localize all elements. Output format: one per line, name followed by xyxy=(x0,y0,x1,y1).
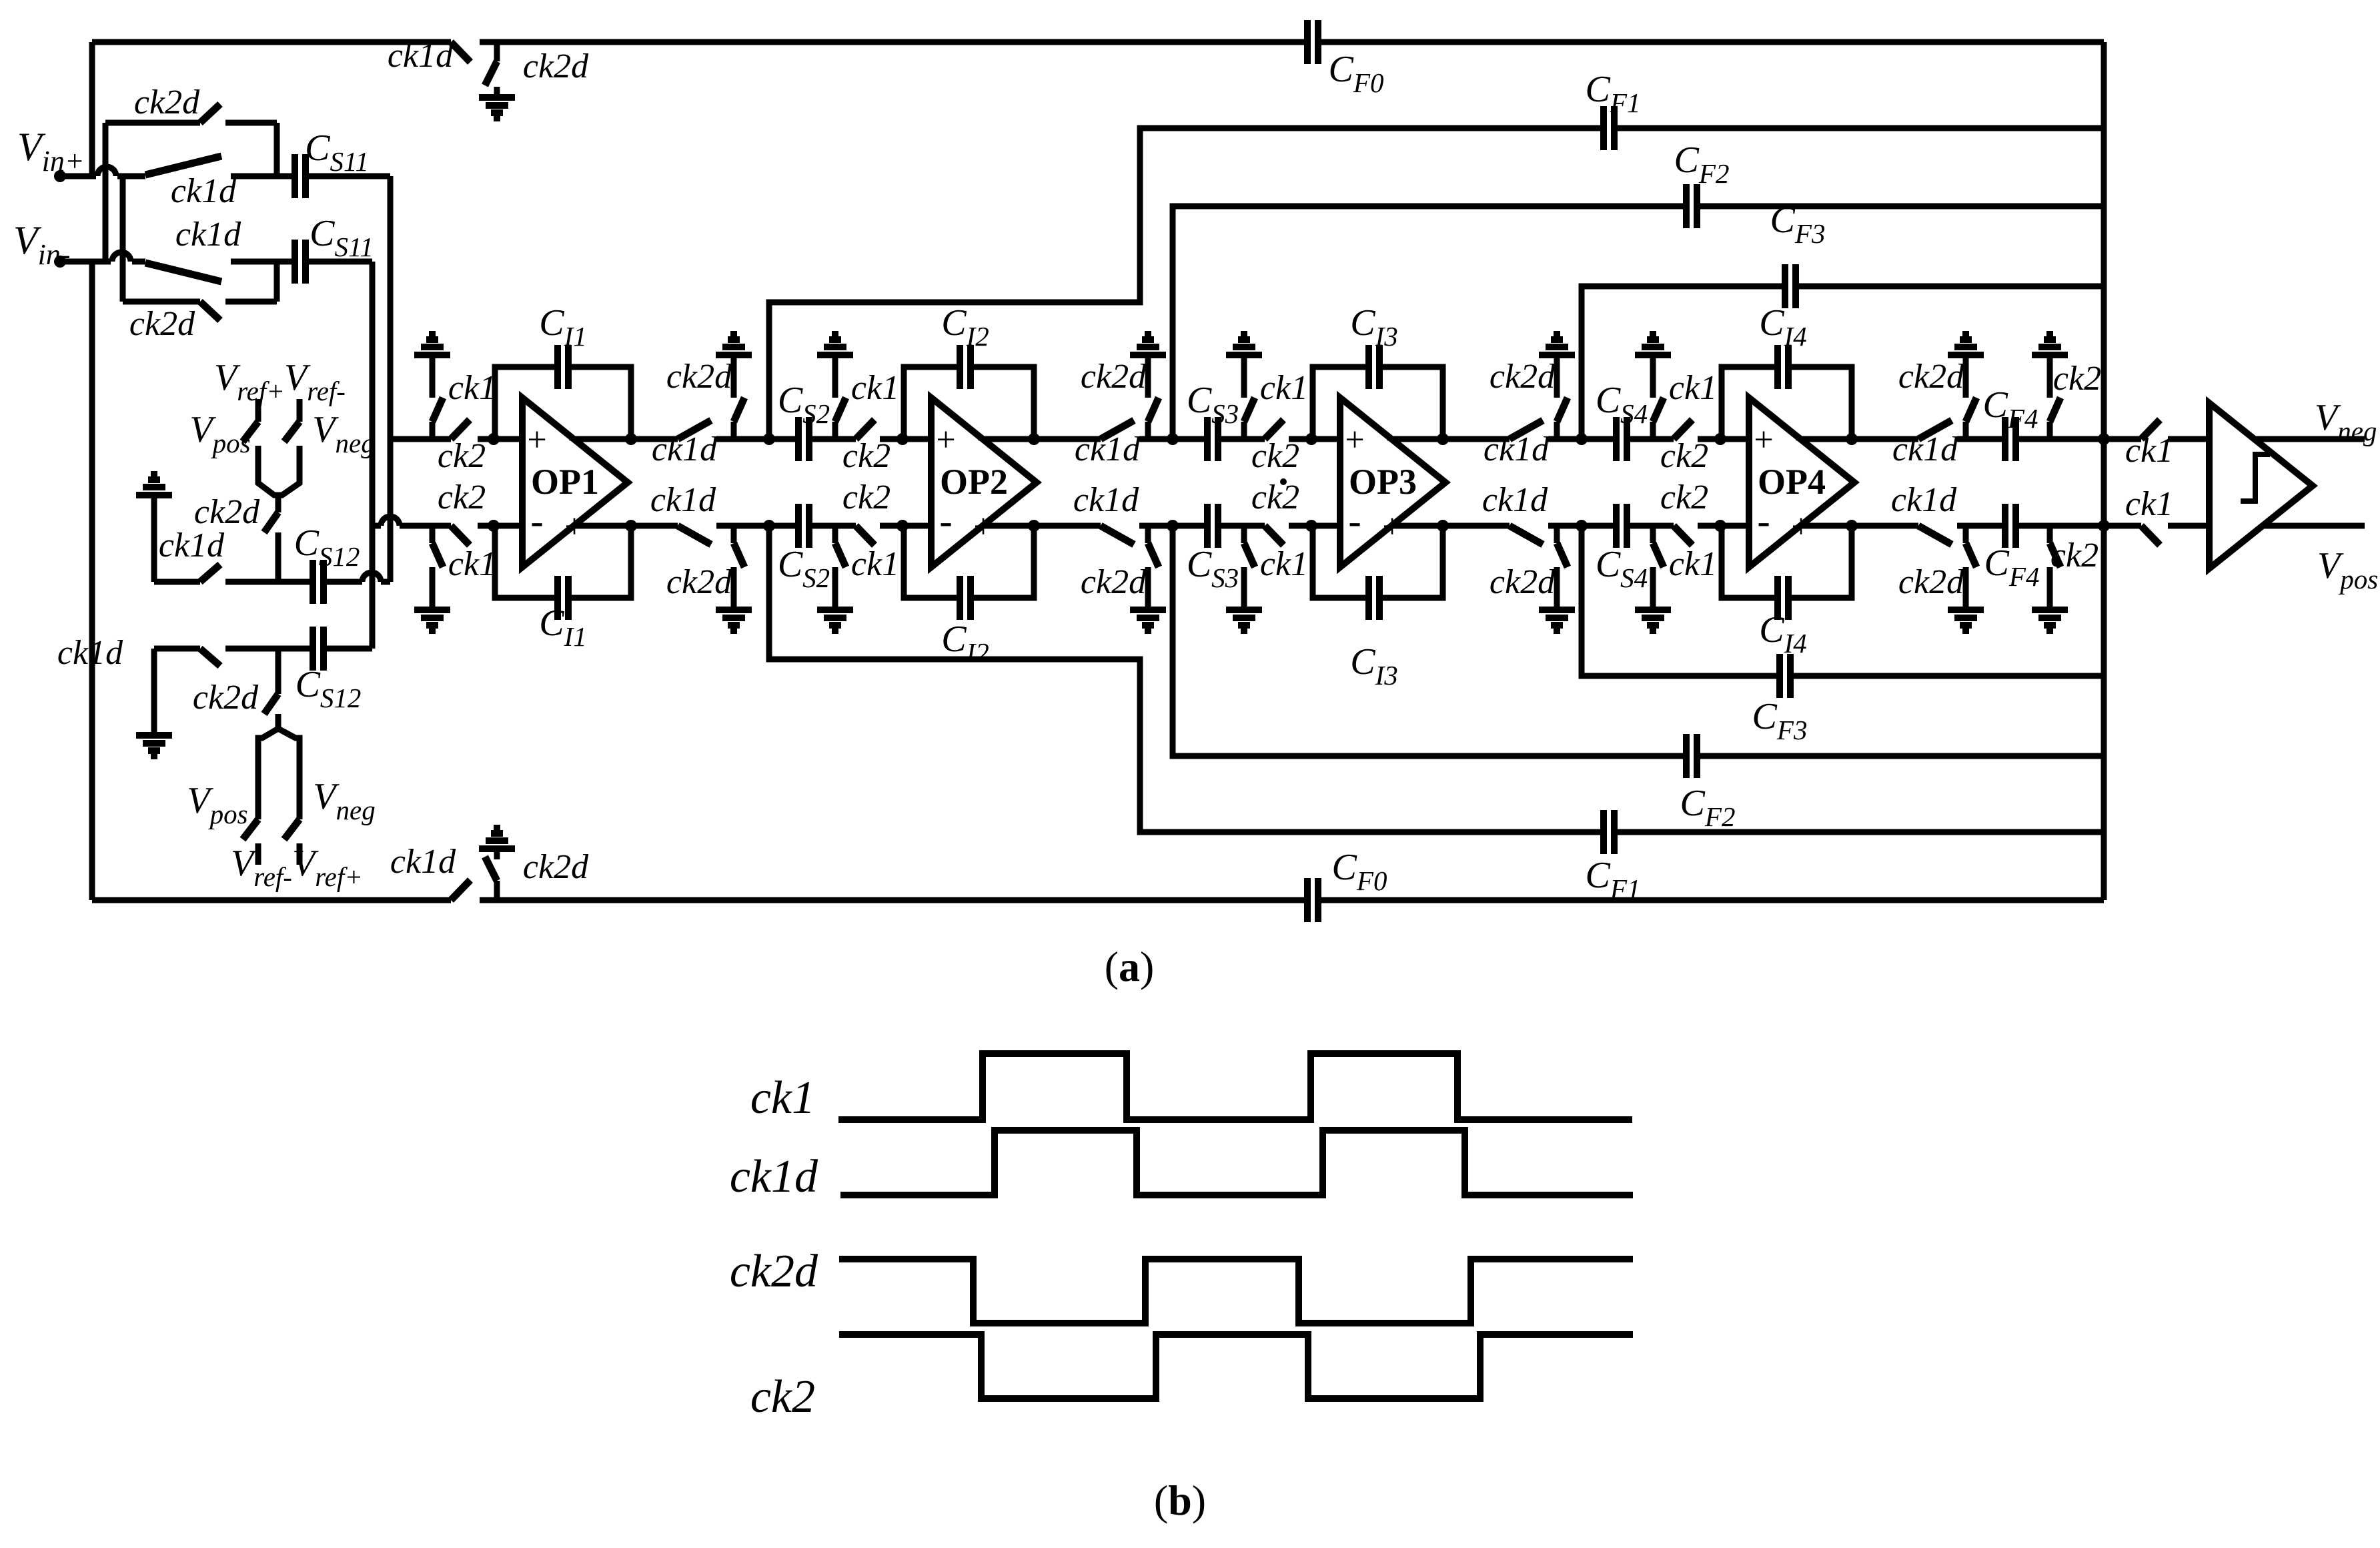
capacitor CF2 (top) xyxy=(1686,184,1697,228)
switch ck1 to ground (OP4 bottom input) xyxy=(1650,526,1656,543)
capacitor CF4 (bottom) xyxy=(2005,504,2016,548)
switch ck2d to ground (after OP4 bottom) xyxy=(1963,526,1969,543)
switch ck1d (Vin- row) xyxy=(145,263,221,282)
capacitor CF0 (bottom) xyxy=(1307,878,1318,922)
switch ck2d (upper input) xyxy=(200,104,220,123)
wire bottom signal rail xyxy=(372,523,381,529)
switch ck1d (OP3 top output) xyxy=(1510,420,1543,439)
waveform ck2 xyxy=(839,1334,1633,1399)
wire CS12 lower row xyxy=(151,649,157,711)
wire crossing hop on Vin+ row over ck2d column xyxy=(97,167,116,176)
switch ck1d (bottom CF0 wire) xyxy=(451,880,470,900)
switch ck2d to ground (after OP3 top) xyxy=(1554,422,1560,439)
wire plus-net vertical (CS11 upper to rail and CS12 upper) xyxy=(388,176,394,582)
capacitor CS4 (top) xyxy=(1616,417,1627,461)
svg-text:ck2d: ck2d xyxy=(666,358,732,396)
ground top CF0 ck2d ground xyxy=(479,87,515,119)
switch ck1 to ground (OP2 top input) xyxy=(832,422,838,439)
wire crossing hop on bottom rail at plus-net vertical xyxy=(381,516,400,526)
switch ck2d to ground (top CF0 wire) xyxy=(494,42,500,61)
svg-text:ck2d: ck2d xyxy=(194,493,260,531)
wire CF3 top feedback xyxy=(1576,433,1588,445)
switch ck2 (OP3 top input) xyxy=(1265,420,1283,439)
ground OP2 bottom ck1 ground xyxy=(817,586,853,631)
switch ck1 to ground (OP2 bottom input) xyxy=(832,526,838,543)
capacitor CF4 (top) xyxy=(2005,417,2016,461)
ground after OP2 bottom ck2d ground xyxy=(1130,586,1166,631)
op-amp OP4 xyxy=(1749,398,1854,567)
svg-text:ck1d: ck1d xyxy=(388,37,454,75)
node summing bus / bottom rail xyxy=(2098,520,2110,532)
ground CF4 bottom ck2 ground xyxy=(2032,586,2068,631)
switch ck2 to ground (CF4 top) xyxy=(2047,422,2053,439)
capacitor CS2 (top) xyxy=(798,417,809,461)
wire Vref switch merge (upper block) xyxy=(258,446,278,495)
switch ck1 to ground (OP3 top input) xyxy=(1241,422,1247,439)
switch Vneg (lower block) xyxy=(284,819,300,839)
switch ck1 to ground (OP1 top input) xyxy=(430,422,436,439)
wire CF1 top feedback xyxy=(763,433,775,445)
capacitor CI3 (bottom) loop xyxy=(1313,526,1443,598)
capacitor CF0 (top) xyxy=(1307,20,1318,64)
capacitor CF1 (top) xyxy=(1604,106,1614,150)
wire bottom CF0 line (right) xyxy=(1318,897,2104,903)
switch ck2 (OP1 top input) xyxy=(451,420,470,439)
svg-text:ck2d: ck2d xyxy=(193,679,259,717)
waveform ck1d xyxy=(840,1130,1633,1195)
node OP4 top output xyxy=(1846,433,1858,445)
svg-text:+: + xyxy=(527,421,546,459)
svg-text:ck2d: ck2d xyxy=(523,47,589,85)
wire ck2d row (lower input) xyxy=(120,176,126,302)
svg-text:ck2d: ck2d xyxy=(523,848,589,886)
ground bottom CF0 ck2d ground xyxy=(479,827,515,859)
svg-text:ck1d: ck1d xyxy=(1073,481,1139,519)
svg-text:OP1: OP1 xyxy=(531,462,599,502)
node OP2 top output xyxy=(1028,433,1040,445)
svg-text:ck1d: ck1d xyxy=(650,481,716,519)
capacitor CI3 (bottom) xyxy=(1369,576,1379,620)
switch ck1d (OP4 bottom output) xyxy=(1918,526,1952,544)
capacitor CI2 (top) xyxy=(960,345,971,389)
svg-text:ck2d: ck2d xyxy=(129,305,195,343)
node OP1 + input xyxy=(488,433,500,445)
capacitor CF1 (bottom) xyxy=(1604,810,1614,854)
capacitor CS12 (upper) xyxy=(313,560,324,604)
switch ck1d (OP4 top output) xyxy=(1918,420,1952,439)
capacitor CS11 (lower) xyxy=(295,240,306,284)
wire right summing bus vertical xyxy=(2101,42,2107,900)
svg-text:ck1: ck1 xyxy=(1669,545,1717,583)
capacitor CI3 (top) loop xyxy=(1313,367,1443,439)
wire CS11 lower output xyxy=(306,259,372,265)
ground upper CS12 ck1d ground xyxy=(136,474,172,519)
capacitor CI1 (top) xyxy=(558,345,568,389)
capacitor CI1 (bottom) loop xyxy=(495,526,631,598)
ground after OP4 top ck2d ground xyxy=(1948,334,1984,379)
wire CF2 bottom feedback xyxy=(1167,520,1179,532)
svg-text:ck1: ck1 xyxy=(851,369,899,407)
capacitor CF2 (bottom) xyxy=(1686,734,1697,778)
capacitor CI4 (bottom) loop xyxy=(1722,526,1852,598)
switch ck1d (OP2 top output) xyxy=(1101,420,1134,439)
svg-text:-: - xyxy=(1385,414,1398,457)
node stray dot near OP3 input xyxy=(1280,478,1287,485)
switch ck2d to ground (after OP2 top) xyxy=(1145,422,1151,439)
switch ck2 (OP4 top input) xyxy=(1674,420,1692,439)
svg-text:-: - xyxy=(977,414,989,457)
svg-text:ck1d: ck1d xyxy=(1892,430,1958,468)
ground after OP3 bottom ck2d ground xyxy=(1539,586,1575,631)
svg-text:ck2d: ck2d xyxy=(134,83,200,121)
svg-text:ck1: ck1 xyxy=(448,369,496,407)
svg-text:ck2: ck2 xyxy=(1251,437,1299,475)
ground OP3 bottom ck1 ground xyxy=(1226,586,1262,631)
svg-text:+: + xyxy=(1754,421,1773,459)
wire top CF0 line (right) xyxy=(1318,39,2104,45)
node Vin+ terminal xyxy=(54,170,66,182)
svg-text:+: + xyxy=(936,421,955,459)
ground after OP4 bottom ck2d ground xyxy=(1948,586,1984,631)
svg-text:(b): (b) xyxy=(1154,1477,1206,1524)
wire center vertical (lower Vref block) xyxy=(275,649,281,694)
svg-text:ck1d: ck1d xyxy=(57,634,123,672)
svg-text:ck2d: ck2d xyxy=(1081,563,1147,601)
ground after OP2 top ck2d ground xyxy=(1130,334,1166,379)
capacitor CS3 (top) xyxy=(1207,417,1218,461)
wire top signal rail xyxy=(390,436,451,442)
svg-text:ck1: ck1 xyxy=(1260,369,1308,407)
switch ck1d (OP3 bottom output) xyxy=(1510,526,1543,544)
capacitor CS12 (lower) xyxy=(313,627,324,671)
ground OP3 top ck1 ground xyxy=(1226,334,1262,379)
switch ck1d (lower CS12 row) xyxy=(200,649,220,666)
switch ck1 to ground (OP4 top input) xyxy=(1650,422,1656,439)
node OP3 top output xyxy=(1437,433,1449,445)
switch ck2d (upper Vref block) xyxy=(264,512,278,532)
capacitor CI3 (top) xyxy=(1369,345,1379,389)
node Vin- terminal xyxy=(54,256,66,268)
svg-text:ck2d: ck2d xyxy=(1490,358,1556,396)
wire Vref switch split (lower block) xyxy=(258,714,278,819)
svg-text:-: - xyxy=(1794,414,1807,457)
ground lower CS12 ck1d ground xyxy=(136,711,172,757)
node OP1 top output xyxy=(625,433,637,445)
node OP2 + input xyxy=(897,433,909,445)
svg-text:ck2: ck2 xyxy=(842,478,890,516)
wire minus-net vertical (CS11 lower to rail and CS12 lower) xyxy=(370,262,376,649)
svg-text:ck1d: ck1d xyxy=(652,430,718,468)
svg-text:-: - xyxy=(530,499,543,542)
switch ck2d to ground (after OP4 top) xyxy=(1963,422,1969,439)
switch Vpos (lower block) xyxy=(243,819,258,839)
svg-text:ck2d: ck2d xyxy=(1490,563,1556,601)
svg-text:-: - xyxy=(939,499,952,542)
svg-text:ck2: ck2 xyxy=(1660,437,1708,475)
wire crossing hop on CS12 upper row xyxy=(362,572,381,582)
capacitor CS2 (bottom) xyxy=(798,504,809,548)
svg-text:ck1d: ck1d xyxy=(1891,481,1957,519)
switch ck1 to ground (OP1 bottom input) xyxy=(430,526,436,543)
svg-text:ck1d: ck1d xyxy=(171,172,237,210)
ground OP4 bottom ck1 ground xyxy=(1635,586,1671,631)
svg-text:ck1d: ck1d xyxy=(159,526,225,564)
svg-text:ck2: ck2 xyxy=(842,437,890,475)
switch ck1d (upper CS12 row) xyxy=(200,564,220,582)
wire Vpos output xyxy=(2263,523,2365,529)
switch ck2d (lower Vref block) xyxy=(264,694,278,714)
switch ck2 to ground (CF4 bottom) xyxy=(2047,526,2053,543)
switch ck1d (OP1 top output) xyxy=(678,420,711,439)
ground after OP1 bottom ck2d ground xyxy=(716,586,752,631)
svg-text:+: + xyxy=(973,508,993,546)
svg-text:ck2d: ck2d xyxy=(1898,563,1964,601)
svg-text:ck1d: ck1d xyxy=(390,843,456,881)
svg-text:ck1d: ck1d xyxy=(1482,481,1548,519)
ground CF4 top ck2 ground xyxy=(2032,334,2068,379)
op-amp OP3 xyxy=(1340,398,1445,567)
switch ck1 to ground (OP3 bottom input) xyxy=(1241,526,1247,543)
svg-text:ck1: ck1 xyxy=(1260,545,1308,583)
capacitor CI4 (bottom) xyxy=(1778,576,1788,620)
svg-text:ck1: ck1 xyxy=(851,545,899,583)
wire left vertical to bottom CF0 wire xyxy=(89,262,95,900)
svg-text:ck1d: ck1d xyxy=(730,1151,818,1202)
capacitor CI2 (bottom) xyxy=(960,576,971,620)
node OP4 + input xyxy=(1714,433,1726,445)
capacitor CI1 (top) loop xyxy=(495,367,631,439)
svg-text:(a): (a) xyxy=(1105,943,1155,990)
svg-text:ck2: ck2 xyxy=(750,1371,815,1423)
wire CF3 bottom feedback xyxy=(1576,520,1588,532)
node OP2 - input xyxy=(897,520,909,532)
svg-text:-: - xyxy=(1757,499,1770,542)
svg-text:ck1: ck1 xyxy=(448,545,496,583)
switch ck2d to ground (bottom CF0 wire) xyxy=(494,881,500,900)
switch ck2 (OP4 bottom input) xyxy=(1674,526,1692,545)
node OP3 - input xyxy=(1305,520,1317,532)
node OP2 bottom output xyxy=(1028,520,1040,532)
node summing bus / top rail xyxy=(2098,433,2110,445)
switch ck2d to ground (after OP1 top) xyxy=(731,422,737,439)
capacitor CF3 (top) xyxy=(1785,264,1796,308)
svg-text:+: + xyxy=(1791,508,1810,546)
wire crossing hop on Vin- row xyxy=(112,252,131,262)
wire Vin+ row xyxy=(60,173,96,179)
wire top CF0 line xyxy=(92,39,451,45)
capacitor CI1 (bottom) xyxy=(558,576,568,620)
svg-text:ck1d: ck1d xyxy=(1483,430,1550,468)
op-amp OP2 xyxy=(931,398,1037,567)
switch ck1d (top CF0 wire) xyxy=(451,42,470,62)
svg-text:ck2: ck2 xyxy=(2050,536,2099,574)
switch ck2d to ground (after OP2 bottom) xyxy=(1145,526,1151,543)
switch ck1 (comparator top input) xyxy=(2141,420,2160,439)
wire CF2 top feedback xyxy=(1167,433,1179,445)
ground OP1 top ck1 ground xyxy=(414,334,450,379)
capacitor CI2 (bottom) loop xyxy=(904,526,1034,598)
switch ck2d to ground (after OP3 bottom) xyxy=(1554,526,1560,543)
op-amp OP1 xyxy=(522,398,628,567)
capacitor CI4 (top) xyxy=(1778,345,1788,389)
switch ck1d (Vin+ row) xyxy=(145,156,221,175)
node OP3 + input xyxy=(1305,433,1317,445)
ground OP4 top ck1 ground xyxy=(1635,334,1671,379)
comparator xyxy=(2209,403,2313,568)
svg-text:-: - xyxy=(1348,499,1361,542)
ground after OP1 top ck2d ground xyxy=(716,334,752,379)
svg-text:ck1: ck1 xyxy=(750,1072,815,1124)
svg-text:ck2: ck2 xyxy=(438,478,486,516)
svg-text:ck2: ck2 xyxy=(1660,478,1708,516)
switch ck2d (lower input) xyxy=(200,302,220,320)
switch ck2 (OP1 bottom input) xyxy=(451,526,470,545)
svg-text:ck1d: ck1d xyxy=(1075,430,1141,468)
node OP3 bottom output xyxy=(1437,520,1449,532)
ground OP1 bottom ck1 ground xyxy=(414,586,450,631)
svg-text:OP3: OP3 xyxy=(1349,462,1417,502)
switch ck2 (OP3 bottom input) xyxy=(1265,526,1283,545)
switch Vneg (upper block) xyxy=(297,399,303,422)
node OP1 - input xyxy=(488,520,500,532)
node OP4 - input xyxy=(1714,520,1726,532)
capacitor CS4 (bottom) xyxy=(1616,504,1627,548)
switch ck2 (OP2 bottom input) xyxy=(856,526,874,545)
svg-text:ck2: ck2 xyxy=(438,437,486,475)
wire left vertical to top CF0 wire xyxy=(89,42,95,176)
svg-text:OP2: OP2 xyxy=(940,462,1008,502)
switch ck2 (OP2 top input) xyxy=(856,420,874,439)
waveform ck2d xyxy=(839,1259,1633,1323)
switch ck1d (OP2 bottom output) xyxy=(1101,526,1134,544)
wire Vneg output xyxy=(2255,436,2365,442)
svg-text:ck1: ck1 xyxy=(2125,485,2173,523)
capacitor CS11 (upper) xyxy=(295,154,306,198)
wire CS11 upper output xyxy=(306,173,390,179)
svg-text:ck2d: ck2d xyxy=(1898,358,1964,396)
svg-text:+: + xyxy=(1345,421,1364,459)
svg-text:ck1d: ck1d xyxy=(175,216,241,254)
wire CF1 bottom feedback xyxy=(763,520,775,532)
switch Vpos (upper block) xyxy=(255,399,261,422)
capacitor CI4 (top) loop xyxy=(1722,367,1852,439)
ground after OP3 top ck2d ground xyxy=(1539,334,1575,379)
wire Vin- row xyxy=(60,259,111,265)
svg-text:ck1: ck1 xyxy=(2125,432,2173,470)
node OP4 bottom output xyxy=(1846,520,1858,532)
wire ck2d row (upper input) xyxy=(103,123,109,262)
svg-text:-: - xyxy=(568,414,580,457)
svg-text:ck2d: ck2d xyxy=(730,1246,818,1297)
svg-text:OP4: OP4 xyxy=(1758,462,1826,502)
wire bottom CF0 line xyxy=(92,897,451,903)
node OP1 bottom output xyxy=(625,520,637,532)
svg-text:+: + xyxy=(1382,508,1401,546)
svg-text:ck2d: ck2d xyxy=(666,563,732,601)
capacitor CS3 (bottom) xyxy=(1207,504,1218,548)
ground OP2 top ck1 ground xyxy=(817,334,853,379)
switch ck2d to ground (after OP1 bottom) xyxy=(731,526,737,543)
capacitor CI2 (top) loop xyxy=(904,367,1034,439)
waveform ck1 xyxy=(838,1054,1632,1120)
switch ck1d (OP1 bottom output) xyxy=(678,526,711,544)
svg-text:ck2d: ck2d xyxy=(1081,358,1147,396)
svg-text:ck2: ck2 xyxy=(2053,360,2101,398)
svg-text:+: + xyxy=(564,508,584,546)
capacitor CF3 (bottom) xyxy=(1780,654,1790,698)
switch ck1 (comparator bottom input) xyxy=(2141,526,2160,545)
svg-text:ck2: ck2 xyxy=(1251,478,1299,516)
svg-text:ck1: ck1 xyxy=(1669,369,1717,407)
